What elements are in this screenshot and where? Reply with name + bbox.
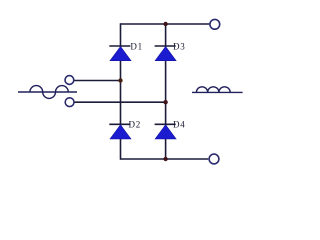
svg-text:D3: D3 xyxy=(173,42,185,52)
svg-text:D1: D1 xyxy=(130,42,142,52)
svg-text:D4: D4 xyxy=(173,120,185,130)
svg-text:D2: D2 xyxy=(129,120,141,130)
